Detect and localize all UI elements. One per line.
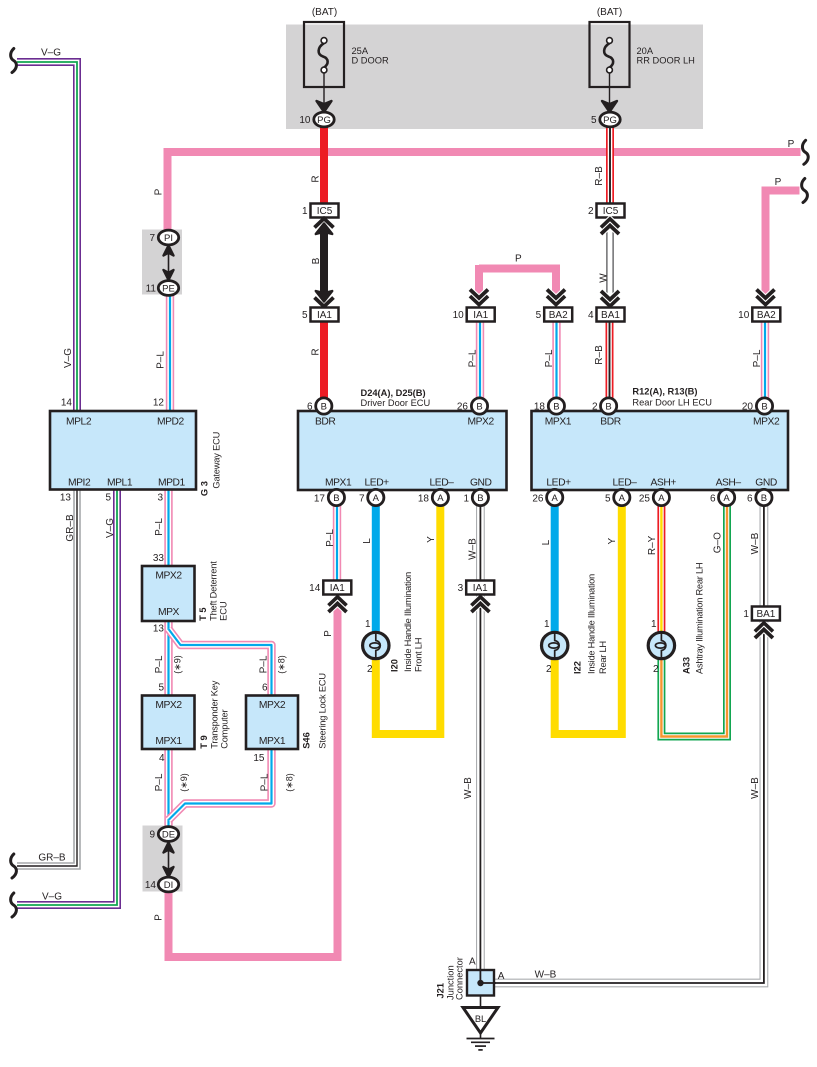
svg-text:MPL2: MPL2 — [66, 417, 92, 428]
svg-text:IA1: IA1 — [330, 583, 345, 594]
svg-text:A: A — [437, 493, 444, 504]
svg-text:ASH+: ASH+ — [651, 478, 677, 489]
svg-text:14: 14 — [145, 880, 157, 891]
svg-text:P: P — [515, 254, 522, 265]
svg-text:18: 18 — [534, 402, 546, 413]
svg-text:3: 3 — [458, 583, 464, 594]
svg-text:Inside Handle Illumination: Inside Handle Illumination — [587, 574, 597, 674]
svg-text:IA1: IA1 — [473, 583, 488, 594]
svg-text:A: A — [619, 493, 626, 504]
svg-text:Rear Door LH ECU: Rear Door LH ECU — [632, 398, 712, 408]
svg-text:W–B: W–B — [750, 532, 761, 554]
svg-text:Steering Lock ECU: Steering Lock ECU — [318, 673, 328, 749]
svg-text:V–G: V–G — [42, 892, 62, 903]
svg-text:Y: Y — [426, 536, 437, 543]
svg-text:2: 2 — [546, 664, 552, 675]
svg-text:Inside Handle Illumination: Inside Handle Illumination — [403, 572, 413, 672]
svg-text:10: 10 — [453, 310, 465, 321]
svg-text:IA1: IA1 — [473, 310, 488, 321]
svg-text:LED+: LED+ — [365, 478, 390, 489]
svg-text:25: 25 — [639, 494, 651, 505]
svg-text:25A: 25A — [352, 46, 369, 56]
svg-text:BA2: BA2 — [757, 310, 776, 321]
svg-text:A: A — [498, 971, 505, 982]
svg-text:V–G: V–G — [63, 348, 74, 368]
svg-text:GND: GND — [470, 478, 492, 489]
svg-text:1: 1 — [463, 494, 469, 505]
svg-text:9: 9 — [149, 830, 155, 841]
svg-text:26: 26 — [532, 494, 544, 505]
svg-text:5: 5 — [605, 494, 611, 505]
svg-text:A: A — [552, 493, 559, 504]
svg-text:18: 18 — [418, 494, 430, 505]
svg-text:P: P — [775, 177, 782, 188]
svg-text:13: 13 — [60, 493, 72, 504]
svg-text:P–L: P–L — [258, 655, 269, 673]
svg-text:DI: DI — [164, 880, 174, 891]
svg-text:P: P — [154, 914, 165, 921]
svg-text:17: 17 — [314, 494, 326, 505]
svg-text:5: 5 — [591, 115, 597, 126]
svg-text:L: L — [541, 539, 552, 545]
svg-text:B: B — [761, 493, 767, 504]
svg-text:MPX1: MPX1 — [259, 736, 286, 747]
svg-text:P–L: P–L — [154, 518, 165, 536]
svg-text:LED–: LED– — [430, 478, 455, 489]
svg-text:P–L: P–L — [544, 349, 555, 367]
svg-text:Computer: Computer — [220, 709, 230, 748]
svg-text:MPX2: MPX2 — [753, 417, 780, 428]
svg-text:W: W — [599, 273, 610, 283]
svg-text:A: A — [658, 493, 665, 504]
svg-text:Y: Y — [607, 538, 618, 545]
svg-text:1: 1 — [743, 609, 749, 620]
svg-text:T 9: T 9 — [199, 735, 209, 748]
svg-text:MPI2: MPI2 — [68, 478, 91, 489]
svg-text:6: 6 — [262, 683, 268, 694]
svg-text:A: A — [373, 493, 380, 504]
svg-text:Driver Door ECU: Driver Door ECU — [361, 398, 431, 408]
svg-text:B: B — [477, 493, 483, 504]
svg-text:13: 13 — [153, 624, 165, 635]
svg-text:P–L: P–L — [156, 351, 167, 369]
svg-text:BDR: BDR — [600, 417, 620, 428]
svg-text:5: 5 — [105, 493, 111, 504]
svg-text:BA2: BA2 — [549, 310, 568, 321]
svg-text:IC5: IC5 — [603, 206, 619, 217]
svg-text:5: 5 — [158, 683, 164, 694]
svg-text:G 3: G 3 — [199, 481, 209, 496]
svg-text:1: 1 — [651, 619, 657, 630]
svg-text:P–L: P–L — [154, 773, 165, 791]
svg-text:Theft Deterrent: Theft Deterrent — [209, 561, 219, 621]
svg-text:MPD2: MPD2 — [157, 417, 185, 428]
svg-text:(BAT): (BAT) — [597, 7, 622, 18]
svg-text:33: 33 — [153, 553, 165, 564]
svg-text:ECU: ECU — [219, 601, 229, 621]
svg-text:5: 5 — [302, 310, 308, 321]
svg-text:2: 2 — [588, 206, 594, 217]
svg-text:1: 1 — [302, 206, 308, 217]
svg-text:LED+: LED+ — [546, 478, 571, 489]
svg-text:Transponder Key: Transponder Key — [210, 680, 220, 749]
svg-text:ASH–: ASH– — [716, 478, 742, 489]
svg-text:5: 5 — [536, 310, 542, 321]
svg-text:4: 4 — [588, 310, 594, 321]
svg-text:L: L — [362, 538, 373, 544]
svg-text:R: R — [311, 348, 322, 355]
svg-text:2: 2 — [653, 664, 659, 675]
svg-text:MPX1: MPX1 — [545, 417, 572, 428]
svg-text:I20: I20 — [390, 659, 400, 672]
svg-text:20: 20 — [742, 402, 754, 413]
svg-text:MPX2: MPX2 — [155, 700, 182, 711]
svg-text:MPX1: MPX1 — [325, 478, 352, 489]
svg-text:15: 15 — [253, 753, 265, 764]
svg-text:6: 6 — [307, 402, 313, 413]
svg-text:I22: I22 — [573, 661, 583, 674]
svg-text:10: 10 — [299, 115, 311, 126]
svg-text:D24(A), D25(B): D24(A), D25(B) — [361, 388, 426, 398]
svg-text:S46: S46 — [302, 732, 312, 749]
svg-text:DE: DE — [162, 829, 175, 840]
svg-text:B: B — [605, 401, 611, 412]
svg-text:BA1: BA1 — [756, 609, 775, 620]
svg-text:20A: 20A — [637, 46, 654, 56]
svg-text:B: B — [761, 401, 767, 412]
svg-text:GR–B: GR–B — [38, 853, 66, 864]
svg-text:PG: PG — [317, 115, 331, 126]
svg-text:12: 12 — [153, 398, 165, 409]
svg-text:GR–B: GR–B — [65, 514, 76, 542]
svg-text:P: P — [154, 188, 165, 195]
svg-text:IA1: IA1 — [317, 310, 332, 321]
svg-text:G–O: G–O — [713, 532, 724, 553]
svg-text:11: 11 — [146, 284, 157, 295]
svg-text:Rear LH: Rear LH — [598, 641, 608, 674]
svg-text:RR DOOR LH: RR DOOR LH — [637, 56, 695, 66]
svg-text:GND: GND — [755, 478, 777, 489]
svg-text:B: B — [553, 401, 559, 412]
svg-text:Connector: Connector — [455, 957, 465, 1000]
svg-text:Front LH: Front LH — [414, 638, 424, 672]
svg-text:V–G: V–G — [41, 48, 61, 59]
svg-text:R12(A), R13(B): R12(A), R13(B) — [632, 387, 697, 397]
svg-text:14: 14 — [309, 583, 321, 594]
svg-text:MPL1: MPL1 — [107, 478, 133, 489]
svg-text:Gateway ECU: Gateway ECU — [212, 432, 222, 489]
svg-text:A33: A33 — [682, 657, 692, 674]
svg-text:B: B — [321, 401, 327, 412]
svg-text:(BAT): (BAT) — [312, 7, 337, 18]
svg-text:R–B: R–B — [594, 345, 605, 365]
svg-text:7: 7 — [359, 494, 365, 505]
svg-text:PI: PI — [164, 233, 173, 244]
svg-text:BL: BL — [475, 1014, 486, 1024]
svg-text:MPX2: MPX2 — [468, 417, 495, 428]
svg-text:P: P — [788, 139, 795, 150]
svg-text:R: R — [311, 175, 322, 182]
svg-text:A: A — [469, 957, 476, 968]
svg-text:P–L: P–L — [260, 773, 271, 791]
svg-text:R–Y: R–Y — [647, 535, 658, 555]
svg-text:BA1: BA1 — [601, 310, 620, 321]
svg-text:MPX: MPX — [158, 607, 180, 618]
svg-text:V–G: V–G — [105, 518, 116, 538]
svg-text:MPX2: MPX2 — [155, 571, 182, 582]
svg-text:LED–: LED– — [613, 478, 638, 489]
svg-text:Ashtray Illumination Rear LH: Ashtray Illumination Rear LH — [695, 563, 705, 674]
svg-text:3: 3 — [157, 493, 163, 504]
svg-text:P–L: P–L — [325, 529, 336, 547]
svg-text:P: P — [323, 630, 334, 637]
svg-text:6: 6 — [710, 494, 716, 505]
svg-text:IC5: IC5 — [317, 206, 333, 217]
svg-text:2: 2 — [592, 402, 598, 413]
svg-text:2: 2 — [367, 664, 373, 675]
svg-text:J21: J21 — [435, 983, 445, 999]
svg-text:W–B: W–B — [750, 777, 761, 799]
svg-text:(∗9): (∗9) — [179, 773, 189, 792]
svg-text:MPX1: MPX1 — [155, 736, 182, 747]
svg-text:B: B — [476, 401, 482, 412]
svg-text:W–B: W–B — [468, 538, 479, 560]
svg-text:D DOOR: D DOOR — [352, 56, 389, 66]
svg-text:4: 4 — [159, 753, 165, 764]
svg-text:W–B: W–B — [463, 777, 474, 799]
svg-text:P–L: P–L — [154, 655, 165, 673]
svg-text:BDR: BDR — [315, 417, 335, 428]
svg-text:A: A — [723, 493, 730, 504]
svg-text:B: B — [333, 493, 339, 504]
svg-text:W–B: W–B — [535, 970, 557, 981]
svg-text:T 5: T 5 — [198, 607, 208, 620]
svg-text:B: B — [311, 257, 322, 264]
svg-text:PG: PG — [603, 115, 617, 126]
svg-text:(∗8): (∗8) — [285, 773, 295, 792]
svg-text:P–L: P–L — [752, 349, 763, 367]
svg-text:(∗8): (∗8) — [277, 655, 287, 674]
svg-text:6: 6 — [747, 494, 753, 505]
svg-text:10: 10 — [738, 310, 750, 321]
svg-text:1: 1 — [365, 619, 371, 630]
svg-text:14: 14 — [61, 398, 73, 409]
svg-text:1: 1 — [544, 619, 550, 630]
svg-text:7: 7 — [149, 233, 155, 244]
svg-text:MPD1: MPD1 — [158, 478, 186, 489]
svg-text:R–B: R–B — [594, 166, 605, 186]
svg-text:26: 26 — [457, 402, 469, 413]
svg-text:PE: PE — [162, 283, 175, 294]
svg-text:MPX2: MPX2 — [259, 700, 286, 711]
svg-text:(∗9): (∗9) — [173, 655, 183, 674]
svg-text:P–L: P–L — [468, 349, 479, 367]
